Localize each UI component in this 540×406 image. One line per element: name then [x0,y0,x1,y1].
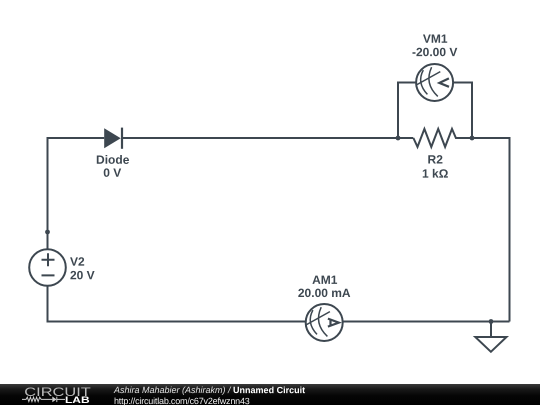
svg-text:-20.00 V: -20.00 V [412,45,457,59]
svg-text:VM1: VM1 [423,32,448,46]
svg-text:1 kΩ: 1 kΩ [422,167,449,181]
svg-text:R2: R2 [428,152,444,166]
svg-text:LAB: LAB [65,395,90,405]
svg-text:20.00 mA: 20.00 mA [298,286,351,300]
svg-text:20 V: 20 V [70,268,95,282]
svg-text:Diode: Diode [96,153,130,167]
svg-text:0 V: 0 V [103,166,121,180]
svg-text:AM1: AM1 [312,273,338,287]
svg-text:V2: V2 [70,255,85,269]
